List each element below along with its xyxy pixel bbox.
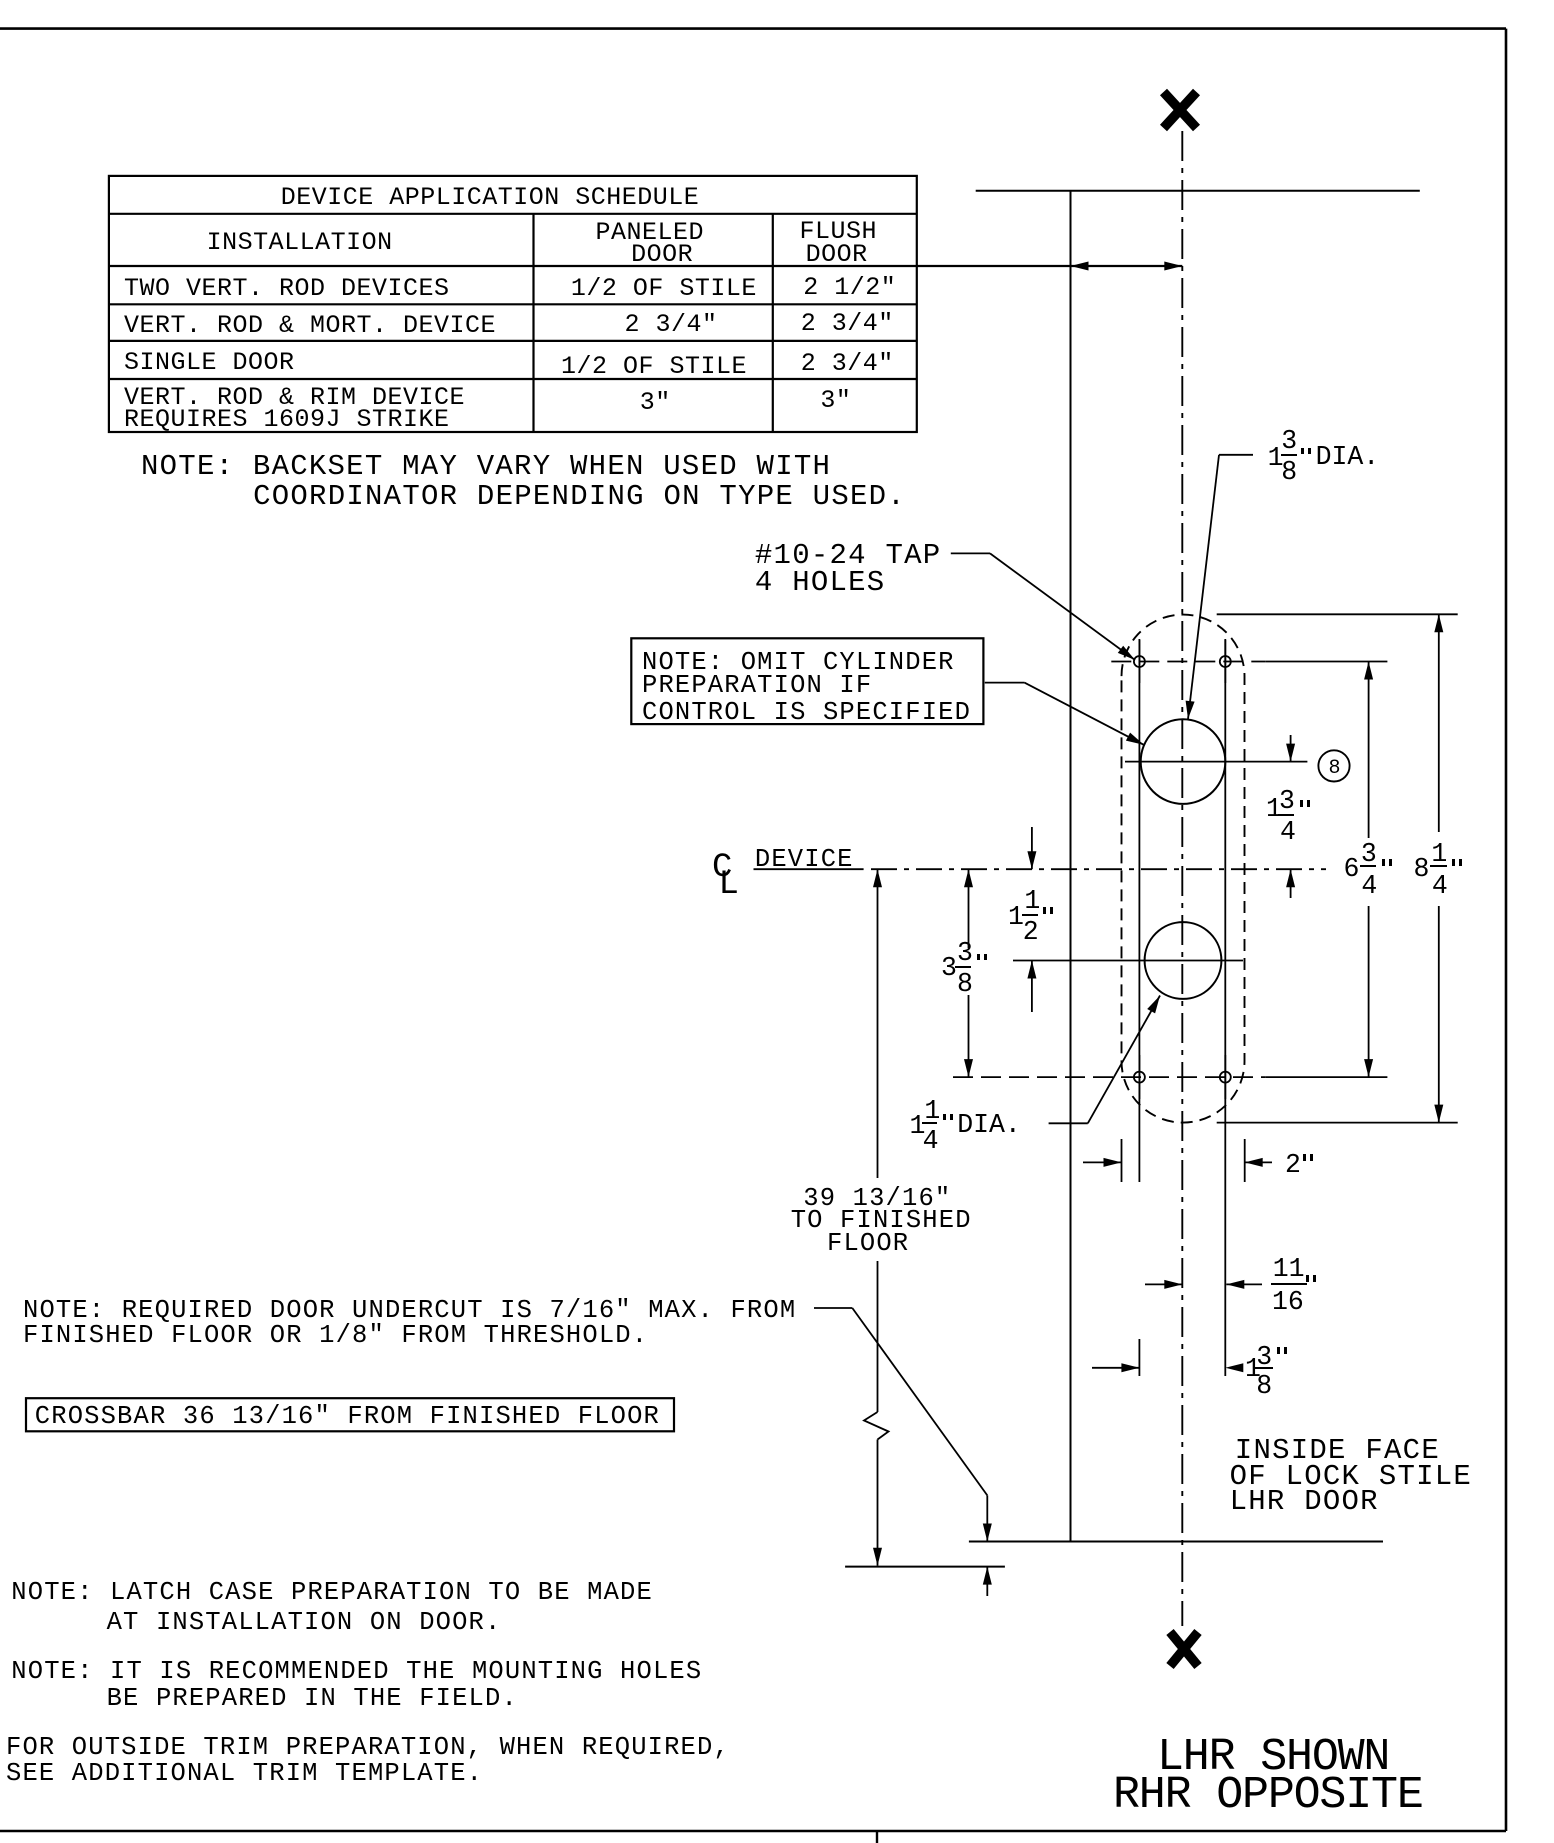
table row1 installation [124, 276, 450, 301]
tap leader diagonal [990, 553, 1135, 660]
dim 3-3/8 arrow down [964, 1059, 973, 1077]
dim 3-3/8 line lower [968, 995, 970, 1077]
label 3-3/8 bar [955, 966, 971, 968]
upper hole center line [1125, 761, 1307, 763]
label dia 1-3/8 numerator [1281, 428, 1297, 455]
label dia 1-3/8 bar [1281, 454, 1296, 456]
device top extension line [1217, 613, 1458, 615]
backset note line1 [141, 452, 831, 481]
mounting note line1 [11, 1659, 702, 1685]
table row2 installation [124, 313, 496, 338]
dim 2in left arrow [1104, 1158, 1122, 1167]
dim 6-3/4 arrow down [1364, 1059, 1373, 1077]
table title [281, 185, 700, 210]
device centerline horizontal first dash (DEVICE underline) [754, 868, 864, 870]
table row2 paneled [625, 312, 718, 337]
dim 8-1/4 line upper [1438, 614, 1440, 832]
table row1 paneled [571, 276, 757, 301]
undercut note leader stub [814, 1307, 852, 1309]
cylinder hole upper 1-3/8 dia [1141, 719, 1226, 804]
dia 1-1/4 leader stub [1049, 1122, 1088, 1124]
border frame top [0, 27, 1506, 30]
lower tap row extension line [1266, 1076, 1388, 1078]
table row4 installation line2 [124, 407, 450, 432]
label tap text line1 [755, 541, 942, 570]
label 39 13/16 line2 [791, 1208, 972, 1234]
label 39 13/16 line1 [803, 1186, 951, 1212]
device bottom extension line [1217, 1122, 1458, 1124]
label 6-3/4 denominator [1361, 873, 1377, 900]
dim 1-3/8 left tail [1092, 1367, 1139, 1369]
label 3-3/8 numerator [957, 940, 973, 967]
latch note line1 [11, 1580, 653, 1606]
undercut note line2 [23, 1323, 648, 1349]
device centerline horizontal [871, 868, 1326, 870]
tap hole lower-right [1220, 1055, 1231, 1099]
table header PANELED DOOR [631, 242, 693, 267]
door top line [976, 190, 1420, 192]
label 6-3/4 whole digit [1344, 856, 1360, 883]
mounting note line2 [107, 1686, 518, 1712]
note box text line3 [642, 700, 971, 726]
table row line 1 [109, 213, 917, 215]
label 2 inch digit [1285, 1152, 1301, 1179]
dia 1-1/4 leader diagonal [1088, 996, 1160, 1124]
dim 1-3/8 right arrow [1225, 1363, 1243, 1372]
border frame bottom [0, 1830, 1506, 1833]
undercut leader vertical [986, 1495, 988, 1541]
label 1-1/2 bar [1022, 914, 1038, 916]
dia 1-3/8 leader stub [1219, 454, 1253, 456]
backset note line2 [253, 482, 906, 511]
label 1-3/8 bottom denominator [1256, 1373, 1272, 1400]
label 1-3/4 whole digit [1266, 796, 1282, 823]
device vertical centerline [1181, 131, 1183, 1626]
label 11/16 numerator [1273, 1256, 1305, 1283]
lower tap row centerline [953, 1076, 1266, 1078]
cylinder hole lower 1-1/4 dia [1145, 922, 1222, 999]
label 1-3/8 bottom whole digit [1245, 1356, 1261, 1383]
dim 2in left tail [1083, 1161, 1122, 1163]
dim 6-3/4 line upper [1368, 662, 1370, 839]
label dia 1-3/8 whole digit [1268, 445, 1284, 472]
table row4 flush [820, 388, 851, 413]
tap leader arrow [1118, 646, 1135, 660]
dim 11/16 right tail [1226, 1283, 1262, 1285]
note box text line1 [642, 650, 955, 676]
dim 39-13/16 break symbol [864, 1412, 889, 1440]
label DEVICE [755, 847, 854, 873]
label 11/16 quote [1306, 1275, 1316, 1282]
note box [631, 638, 983, 724]
table row line 3 [109, 303, 917, 305]
dim 2in extension left [1121, 1139, 1123, 1182]
dim 1-1/2 upper arrow line [1031, 827, 1033, 869]
door edge (inside face of lock stile) [1070, 191, 1072, 1542]
label 1-1/2 denominator [1023, 919, 1039, 946]
door bottom line [969, 1541, 1383, 1543]
outside trim note line2 [6, 1761, 483, 1787]
tap hole column line left lower extension [1138, 1339, 1140, 1376]
dim 1-3/4 lower arrow line [1290, 869, 1292, 898]
label LHR SHOWN [1157, 1735, 1389, 1780]
dim 1-1/2 upper arrow [1027, 851, 1036, 869]
crossbar box [26, 1398, 674, 1431]
table row3 flush [801, 351, 894, 376]
dim 39-13/16 line lower [877, 1261, 879, 1412]
label 1-1/2 numerator [1024, 888, 1040, 915]
label inside face line3 [1230, 1487, 1379, 1516]
undercut leader arrow down [983, 1524, 992, 1542]
label dia 1-1/4 denominator [923, 1128, 939, 1155]
label 8-1/4 bar [1430, 865, 1446, 867]
backset dim arrow left [1071, 262, 1089, 271]
label dia 1-3/8 denominator [1281, 459, 1297, 486]
label 1-3/8 bottom bar [1255, 1367, 1273, 1369]
undercut up arrow line below floor [986, 1567, 988, 1596]
label 11/16 bar [1271, 1283, 1307, 1285]
table row3 paneled [561, 354, 747, 379]
label dia 1-1/4 bar [922, 1122, 937, 1124]
tap hole upper-left [1134, 640, 1145, 683]
dim 1-3/4 upper arrow [1286, 744, 1295, 762]
finished floor line [845, 1566, 1005, 1568]
label 2 inch quote [1303, 1154, 1313, 1161]
dim 8-1/4 arrow down [1434, 1105, 1443, 1123]
label 1-3/4 denominator [1280, 819, 1296, 846]
latch note line2 [107, 1610, 502, 1636]
label 39 13/16 line3 [827, 1231, 909, 1257]
dim 11/16 right arrow [1226, 1280, 1244, 1289]
dia 1-3/8 leader diagonal [1188, 455, 1219, 719]
label 1-3/4 numerator [1279, 788, 1295, 815]
dim 2in right arrow [1245, 1158, 1263, 1167]
crossbar box text [35, 1404, 660, 1430]
dim 2in extension right [1244, 1139, 1246, 1182]
dim 8-1/4 line lower [1438, 906, 1440, 1123]
label 6-3/4 quote [1382, 859, 1392, 866]
dia 1-3/8 leader arrow [1186, 701, 1195, 719]
outside trim note line1 [6, 1735, 730, 1761]
table row4 paneled [640, 390, 671, 415]
dim 6-3/4 arrow up [1364, 662, 1373, 680]
label dia 1-1/4 whole digit [910, 1113, 926, 1140]
circled 8 balloon [1318, 750, 1349, 781]
table row line 2 + backset dimension line [109, 265, 1182, 267]
device outline dashed stadium [1122, 615, 1245, 1123]
backset dim arrow right [1164, 262, 1182, 271]
label dia 1-1/4 quote [943, 1114, 953, 1121]
table column line 1 [532, 214, 534, 432]
lower hole center line [1013, 960, 1243, 962]
tap hole column line left [1138, 639, 1140, 1182]
label 1-1/2 whole digit [1008, 904, 1024, 931]
table column line 2 [772, 214, 774, 432]
note box leader horizontal [985, 682, 1025, 684]
label 1-3/8 bottom quote [1277, 1347, 1287, 1354]
dia 1-1/4 leader arrow [1147, 996, 1160, 1014]
border frame right [1505, 29, 1508, 1831]
label 1-1/2 quote [1043, 907, 1053, 914]
dim 39-13/16 arrow up [873, 869, 882, 887]
dim 11/16 left arrow [1164, 1280, 1182, 1289]
note box leader arrow [1126, 733, 1144, 745]
tap hole lower-left [1134, 1055, 1145, 1099]
label 11/16 denominator [1272, 1289, 1304, 1316]
table outer box [109, 176, 917, 432]
label 8-1/4 whole digit [1414, 856, 1430, 883]
dim 39-13/16 line bottom [877, 1440, 879, 1566]
table row1 flush [803, 275, 896, 300]
dim 39-13/16 arrow down [873, 1548, 882, 1566]
label 3-3/8 denominator [957, 971, 973, 998]
label dia 1-3/8 quote [1301, 448, 1311, 455]
label 3-3/8 whole digit [941, 955, 957, 982]
dim 3-3/8 arrow up [964, 869, 973, 887]
label 8-1/4 numerator [1431, 841, 1447, 868]
tap leader stub [951, 552, 990, 554]
dim 8-1/4 arrow up [1434, 614, 1443, 632]
table header FLUSH DOOR [806, 242, 868, 267]
note box leader diagonal [1024, 683, 1144, 745]
label dia 1-1/4 numerator [924, 1098, 940, 1125]
X marker bottom [1170, 1632, 1198, 1666]
label 6-3/4 numerator [1361, 841, 1377, 868]
label 3-3/8 quote [977, 954, 987, 961]
label dia 1-3/8 DIA text [1316, 444, 1380, 471]
undercut note leader diagonal [852, 1308, 987, 1495]
label inside face line2 [1230, 1462, 1473, 1491]
note box text line2 [642, 673, 872, 699]
label 8-1/4 quote [1452, 859, 1462, 866]
table header INSTALLATION [207, 230, 393, 255]
label RHR OPPOSITE [1113, 1773, 1423, 1818]
dim 6-3/4 line lower [1368, 906, 1370, 1077]
label inside face line1 [1235, 1436, 1440, 1465]
X marker top [1164, 92, 1197, 128]
label dia 1-1/4 DIA text [957, 1112, 1021, 1139]
dim 1-1/2 lower arrow [1027, 961, 1036, 979]
label 8-1/4 denominator [1432, 873, 1448, 900]
label 1-3/8 bottom numerator [1256, 1344, 1272, 1371]
table row4 installation line1 [124, 385, 465, 410]
dim 1-3/4 lower arrow [1286, 869, 1295, 887]
undercut note line1 [23, 1298, 796, 1324]
dim 1-1/2 lower arrow line [1031, 961, 1033, 1013]
table row line 4 [109, 340, 917, 342]
centerline symbol L [719, 868, 739, 902]
tap hole upper-right [1220, 640, 1231, 683]
circled 8 text [1329, 759, 1341, 779]
label 1-3/4 quote [1300, 800, 1310, 807]
table header FLUSH [800, 219, 878, 244]
table row2 flush [801, 311, 894, 336]
dim 39-13/16 line upper [877, 869, 879, 1178]
dim 3-3/8 line upper [968, 869, 970, 948]
centerline symbol C [712, 851, 732, 885]
dim 2in right tail [1245, 1161, 1272, 1163]
undercut up arrow [983, 1567, 992, 1585]
dim 1-3/8 left arrow [1121, 1363, 1139, 1372]
dim 1-3/4 upper arrow line [1290, 735, 1292, 762]
label 6-3/4 bar [1360, 865, 1376, 867]
label tap text line2 [755, 568, 886, 597]
table row3 installation [124, 350, 295, 375]
upper tap row extension line [1266, 661, 1388, 663]
upper tap row centerline [1111, 661, 1265, 663]
table header PANELED [596, 220, 705, 245]
dim 11/16 left tail [1145, 1283, 1182, 1285]
table row line 5 [109, 378, 917, 380]
title block tick [876, 1831, 878, 1843]
label 1-3/4 bar [1278, 814, 1294, 816]
tap hole column line right [1224, 639, 1226, 1376]
